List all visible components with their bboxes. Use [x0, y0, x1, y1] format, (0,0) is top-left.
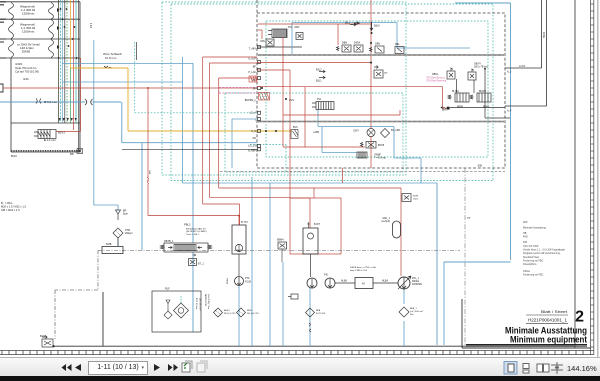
teal dotted inner corner [250, 145, 286, 173]
svg-text:900bar: 900bar [412, 280, 419, 283]
blue riser right [436, 183, 438, 345]
fold ruler band right (ladder) [591, 0, 594, 355]
title block left border [462, 299, 591, 348]
blue pilot left branch 1 [62, 57, 183, 183]
svg-text:+2/BF: +2/BF [313, 132, 320, 134]
bundle end arrows [59, 118, 77, 121]
valve DBL lower left [266, 39, 274, 46]
svg-text:SVS: SVS [289, 99, 294, 102]
bottom ruler band [0, 351, 594, 355]
svg-text:B3L1: B3L1 [316, 80, 322, 83]
solenoid valve B11/1 [34, 130, 56, 139]
svg-text:L/2_LS: L/2_LS [248, 145, 256, 148]
svg-text:BT_1: BT_1 [198, 263, 204, 266]
pilot valve PY mid [374, 66, 383, 79]
svg-text:(ca.5µF): (ca.5µF) [381, 221, 390, 223]
A_REF line [122, 148, 257, 150]
enclosure boundary upper stub [256, 0, 258, 13]
svg-text:L/2_A: L/2_A [249, 112, 256, 115]
svg-text:I: I [255, 119, 256, 122]
svg-text:20/80/90s: 20/80/90s [412, 284, 423, 286]
svg-text:B1V3: B1V3 [58, 131, 65, 135]
pressure line valve on riser [402, 194, 411, 202]
svg-text:Klendlauf Haus: Klendlauf Haus [523, 256, 540, 259]
bottom tank line [53, 345, 575, 347]
svg-text:GB/VY: GB/VY [474, 64, 481, 66]
prev page button [75, 364, 81, 371]
blue pilot bottom rail [183, 182, 438, 184]
disclaimer micro strip [466, 344, 587, 345]
notes text block [523, 221, 566, 277]
flow arrows B3L2 B3L1 [319, 70, 325, 79]
fold mark line VT [464, 168, 466, 346]
svg-text:XXX XIX XXW: XXX XIX XXW [523, 245, 539, 248]
solenoid block SVS [285, 98, 287, 100]
page view icon 2 disabled [197, 361, 207, 372]
brake outlet line [450, 107, 505, 109]
svg-text:GWY: GWY [353, 130, 359, 133]
svg-text:36,75 F/F: 36,75 F/F [316, 313, 326, 315]
one column icon [523, 364, 529, 374]
svg-text:AFS4: AFS4 [224, 309, 230, 312]
svg-text:DW: DW [523, 241, 528, 244]
suction pipe vertical [102, 292, 104, 346]
svg-text:B9M4: B9M4 [277, 239, 284, 242]
blue drop line a [251, 177, 253, 346]
svg-text:NBFN2 B.TH: NBFN2 B.TH [204, 294, 206, 307]
teal return line T [0, 101, 121, 103]
small valve BT_1 [189, 254, 197, 266]
svg-text:B.WT: B.WT [314, 223, 321, 226]
svg-text:PBL2: PBL2 [184, 223, 191, 227]
svg-text:BVS: BVS [293, 127, 298, 129]
svg-text:PVL: PVL [288, 26, 293, 29]
svg-text:(5±0,5 TN) 7 bar: (5±0,5 TN) 7 bar [207, 294, 210, 310]
svg-text:QR1.6B 100 Y: QR1.6B 100 Y [199, 298, 201, 312]
svg-text:GWBF: GWBF [374, 155, 381, 157]
blue riser right 2 [444, 262, 511, 345]
svg-text:T =+5,4 bar: T =+5,4 bar [374, 157, 386, 160]
yellow pilot line [71, 68, 258, 131]
red drop to supply box [342, 168, 344, 183]
svg-text:(TR) Raw Rawbeep: (TR) Raw Rawbeep [426, 81, 447, 83]
collector dash line [98, 249, 460, 251]
right outlet line A_J [505, 0, 542, 68]
left inlet connector P [0, 84, 3, 92]
sensor B9M4 [278, 242, 287, 249]
drain filter BFB_1 [399, 307, 409, 317]
note text left middle [1, 201, 26, 212]
svg-text:Ø 5,0 mm: Ø 5,0 mm [44, 100, 58, 104]
shuttle valves NBVL [447, 68, 476, 80]
svg-text:A_ALP: A_ALP [248, 58, 256, 61]
svg-text:HLBA: HLBA [382, 280, 388, 283]
svg-text:B.. = WLL: B.. = WLL [1, 201, 13, 205]
main return valve DBTB_1 [161, 243, 212, 252]
drain filter BPA [306, 308, 315, 317]
svg-text:BFB_1: BFB_1 [410, 308, 417, 310]
svg-text:Minimum equipment: Minimum equipment [510, 335, 587, 345]
hose wavy column right [49, 3, 54, 58]
svg-text:BF: BF [253, 66, 257, 69]
svg-text:DBL: DBL [261, 41, 266, 43]
svg-text:B3_ADP: B3_ADP [391, 129, 401, 132]
blue tank path left [122, 102, 257, 250]
block port stubs [258, 46, 261, 151]
svg-text:M20 x 1.5 / M22 x 1.5: M20 x 1.5 / M22 x 1.5 [1, 204, 26, 208]
vertical line bundle black 1 [58, 0, 60, 123]
red riser junction [147, 87, 149, 89]
left block hose-end arrows [57, 8, 60, 49]
main valve block dashed black box [257, 13, 505, 168]
red branch to valve B11/1 [56, 58, 81, 132]
svg-text:Twist = 160 C: Twist = 160 C [186, 233, 200, 236]
svg-text:2/4.2: 2/4.2 [91, 22, 93, 28]
red port line A_ALP [257, 62, 371, 64]
svg-text:4/40: 4/40 [23, 77, 29, 81]
svg-text:WW: WW [523, 221, 528, 224]
svg-text:Ventile Hecs 1.1 - 3.0 LKW Ko: Ventile Hecs 1.1 - 3.0 LKW Kopplabgeb [523, 249, 566, 252]
red riser centre [370, 0, 372, 168]
svg-text:Valve: Valve [413, 199, 419, 201]
enclosure dotted teal outer [162, 2, 406, 175]
svg-text:BI (BL): BI (BL) [452, 91, 459, 93]
blue port line I [232, 119, 257, 168]
svg-text:T_48V: T_48V [249, 48, 257, 51]
drive shafts [335, 282, 398, 284]
blue inner box top edge [292, 23, 470, 56]
svg-text:B.T73: B.T73 [241, 221, 248, 224]
junction dot SP [261, 87, 263, 89]
svg-text:VT: VT [467, 216, 471, 220]
svg-text:NBVL: NBVL [432, 73, 439, 76]
gray bus line across block [258, 54, 504, 56]
hose note text [103, 52, 123, 60]
level gauge BhB [291, 294, 298, 299]
svg-text:OKiws: OKiws [523, 270, 531, 273]
svg-text:(ca.) 900 cm³: (ca.) 900 cm³ [410, 310, 423, 313]
svg-text:DBTB_1: DBTB_1 [164, 240, 174, 243]
red drop from PVL valve [283, 38, 400, 148]
svg-text:BbFt: BbFt [442, 109, 448, 112]
svg-text:BYP 3,5 bar: BYP 3,5 bar [195, 298, 198, 309]
title block [466, 309, 587, 347]
svg-text:BFK1: BFK1 [247, 310, 253, 312]
magenta pilot pair [219, 88, 258, 94]
svg-text:P.B: P.B [324, 274, 328, 277]
svg-text:PVL: PVL [317, 98, 322, 101]
valve PVL main hatched [268, 29, 287, 38]
svg-text:BPA: BPA [316, 309, 321, 312]
tank outlet valve B10/1 [42, 336, 53, 348]
svg-text:B/N: B/N [150, 170, 152, 174]
main pump group [307, 278, 317, 288]
svg-text:16.N mm: 16.N mm [105, 56, 117, 60]
breather filter BP [116, 210, 121, 220]
vertical line bundle teal 2 [75, 0, 77, 123]
svg-text:EW65: EW65 [22, 50, 31, 54]
relief DBV5 [361, 142, 377, 149]
vertical line bundle green 2 [70, 68, 72, 123]
junction box KMB [102, 247, 123, 254]
svg-text:S_N: S_N [251, 130, 256, 133]
red supply box [290, 198, 341, 254]
vertical line bundle red 1 [72, 0, 74, 130]
flow arrow B3LV [370, 22, 373, 30]
enclosure dotted teal second [171, 4, 493, 181]
svg-text:B3LV: B3LV [374, 25, 380, 28]
port line T_48V [257, 46, 302, 48]
hydraulic tank unit B.WT [303, 228, 318, 254]
svg-text:B8: B8 [70, 152, 74, 156]
svg-text:B9V2: B9V2 [543, 31, 546, 38]
port labels [245, 48, 257, 153]
svg-text:PAD.: PAD. [523, 236, 529, 239]
valve PVL lower with hatch [312, 102, 334, 110]
vertical line bundle green dotted [66, 0, 68, 123]
hose break lower [309, 323, 311, 332]
red nest line 1 [203, 57, 257, 225]
red branch mid [304, 87, 306, 147]
blue inner jog path [318, 110, 421, 184]
svg-text:dont 1.989 x 2,04: dont 1.989 x 2,04 [350, 269, 368, 272]
blue branch mid [192, 63, 194, 332]
svg-text:(46,28°B/C 0,5 BR/C): (46,28°B/C 0,5 BR/C) [186, 231, 207, 233]
wegeventil section labels [17, 5, 40, 54]
gearbox [355, 278, 373, 289]
svg-text:DBN: DBN [375, 43, 380, 46]
vertical line bundle yellow [70, 0, 72, 68]
blue drop line d RLF [180, 296, 182, 303]
svg-text:RLF: RLF [165, 288, 170, 291]
hose break symbol [104, 66, 112, 69]
svg-text:KMB: KMB [106, 243, 112, 246]
svg-text:FlEDE denn x 7756 x Cold: FlEDE denn x 7756 x Cold [350, 267, 377, 269]
window edge gray line [597, 0, 599, 357]
svg-text:144.16%: 144.16% [567, 364, 597, 373]
svg-text:DBN: DBN [342, 42, 347, 45]
svg-text:290µm: 290µm [125, 232, 133, 235]
svg-text:L/V/A: L/V/A [519, 65, 525, 68]
circle pump GWY [367, 129, 375, 137]
two page icon [537, 364, 549, 372]
enclosure dotted teal inner low [225, 93, 403, 172]
svg-text:SP: SP [253, 88, 257, 91]
tank stepped boundary [55, 250, 98, 339]
svg-text:B/10: B/10 [11, 154, 17, 158]
vertical line bundle teal dashed [59, 0, 61, 123]
svg-text:GWL_1: GWL_1 [382, 218, 391, 220]
directional valve block outline [0, 2, 80, 152]
yellow line into block [257, 130, 292, 132]
variable pump PXL_1 [398, 277, 410, 289]
svg-text:A_REF: A_REF [248, 150, 257, 153]
svg-text:90s: 90s [410, 314, 414, 316]
bundle junction dots [58, 8, 78, 59]
svg-text:B/VN: B/VN [413, 196, 419, 198]
right outlet line B_F [505, 0, 547, 106]
svg-text:NF (5,0 YF): NF (5,0 YF) [224, 313, 236, 315]
orifice 5,0mm [36, 99, 41, 104]
vertical line bundle black 3 [78, 0, 80, 152]
svg-text:■ 1,0 mm: ■ 1,0 mm [44, 138, 56, 142]
gray dashed collector line [220, 171, 505, 173]
suction filters AFS4 BFK1 [214, 308, 223, 317]
accumulator GWL_1 [393, 221, 401, 238]
svg-text:P_LAF: P_LAF [248, 71, 256, 74]
svg-text:B/LL: B/LL [345, 22, 351, 25]
svg-text:A_F: A_F [507, 110, 512, 113]
last page button [168, 364, 178, 371]
enclosure dotted teal inner block [266, 21, 488, 157]
filter element diamond [174, 303, 189, 318]
filter diamond B3_ADP [381, 129, 390, 138]
red pump feed [310, 254, 312, 277]
solenoid at port BN [249, 76, 257, 82]
flow arrow B/LL [350, 23, 356, 26]
text 4/403 [15, 62, 39, 81]
svg-text:H221P00041001_1: H221P00041001_1 [528, 318, 567, 323]
svg-text:Effektdmpkt (AT) (*5: Effektdmpkt (AT) (*5 [186, 228, 206, 231]
svg-text:-DB: -DB [477, 164, 482, 168]
tank unit B.T73 [232, 225, 246, 254]
svg-text:1200/min.: 1200/min. [22, 30, 35, 34]
vertical line bundle blue [61, 0, 63, 123]
svg-text:NG (5,0 YF): NG (5,0 YF) [247, 313, 259, 315]
svg-text:A_J: A_J [507, 71, 512, 74]
valve section connector ticks [0, 2, 6, 58]
svg-text:(TR) Raw Blowout: (TR) Raw Blowout [426, 77, 445, 80]
svg-text:HLBA: HLBA [341, 280, 347, 283]
red supply line P [3, 87, 257, 89]
brake valves BB(BL) [448, 93, 491, 102]
svg-text:300 (+78 bar): 300 (+78 bar) [474, 66, 488, 69]
svg-text:5µm: 5µm [123, 213, 128, 216]
blue drop line b [269, 183, 271, 346]
red nest line 3 [257, 70, 310, 228]
svg-text:BYWL: BYWL [227, 277, 229, 284]
red nest line 2 [210, 63, 291, 197]
blue drop line c [282, 262, 284, 346]
svg-text:A/B = M22 x 1.5: A/B = M22 x 1.5 [1, 208, 20, 212]
svg-text:1200/min.: 1200/min. [22, 12, 35, 16]
drawing frame right edge [574, 0, 576, 348]
scrolling icon [551, 362, 563, 374]
red port line SP long [257, 87, 449, 108]
gray bus line lower [258, 121, 504, 123]
svg-text:Minimale Ausstattung,: Minimale Ausstattung, [523, 227, 547, 230]
next page button [154, 364, 160, 371]
blue pump drains [310, 288, 404, 346]
svg-text:P.128: P.128 [245, 280, 252, 283]
hose wavy column left [9, 3, 14, 58]
svg-text:b/best/pflicio: b/best/pflicio [523, 263, 537, 266]
svg-text:BDV5: BDV5 [378, 144, 385, 147]
sensor line stub [136, 42, 138, 60]
red feeder top [258, 24, 371, 45]
svg-text:BUPPE_L: BUPPE_L [245, 99, 257, 102]
single page layout icon selected [504, 362, 517, 375]
svg-text:Drej(aste reicho still Verschl: Drej(aste reicho still Verschlemong, [523, 252, 561, 255]
return filter assembly RLF [152, 291, 201, 332]
bypass valve small [164, 311, 172, 319]
svg-text:Blatt / Sheet: Blatt / Sheet [541, 309, 568, 314]
blue pilot left branch 2 [62, 62, 193, 64]
svg-text:Cpl auf 700 (10.06): Cpl auf 700 (10.06) [15, 69, 39, 73]
svg-text:PXL_1: PXL_1 [412, 278, 420, 280]
svg-text:2: 2 [575, 309, 584, 326]
relief valve group DBN DBV1 DBN DBL [337, 45, 405, 54]
svg-text:Forderung mit FBC: Forderung mit FBC [523, 259, 544, 262]
svg-text:B10/1: B10/1 [40, 335, 47, 338]
filter diamond KTB [113, 228, 123, 238]
svg-text:M: M [362, 282, 365, 286]
page number field [88, 361, 148, 375]
svg-text:HB.: HB. [523, 232, 527, 235]
svg-text:Forderung mit FBC: Forderung mit FBC [523, 274, 544, 277]
red drop with hose break [148, 88, 239, 225]
component RUPPE_L proportional unit [259, 93, 270, 101]
vertical line bundle black 2 [64, 0, 66, 123]
page view icon 1 [182, 361, 192, 372]
red nest line 4 [219, 78, 401, 276]
svg-text:DBL: DBL [395, 43, 400, 46]
green LS line dotted [135, 42, 257, 113]
first page button [62, 364, 72, 371]
svg-text:DRV: DRV [295, 26, 300, 29]
svg-text:54/54: 54/54 [354, 42, 361, 45]
svg-text:PY: PY [385, 73, 389, 75]
svg-text:SN: SN [253, 137, 257, 140]
svg-text:B3L2: B3L2 [316, 69, 322, 72]
blue pilot box top [455, 3, 511, 260]
feed pump PTA [235, 277, 244, 286]
svg-text:BKWN: BKWN [479, 91, 486, 93]
